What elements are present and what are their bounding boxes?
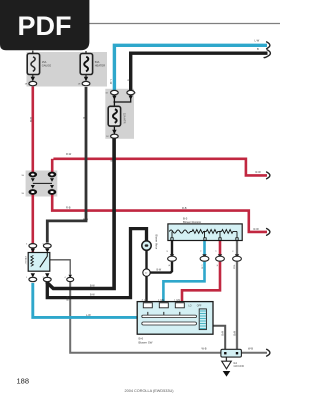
svg-text:R-B: R-B — [66, 205, 71, 209]
svg-text:R-W: R-W — [66, 152, 72, 156]
svg-text:15A: 15A — [42, 60, 47, 64]
svg-text:L-W: L-W — [86, 313, 91, 317]
svg-text:HI: HI — [145, 298, 148, 302]
svg-text:L-W: L-W — [255, 39, 260, 43]
svg-text:Blower SW: Blower SW — [139, 340, 153, 344]
svg-text:HEATER: HEATER — [95, 64, 105, 68]
svg-text:B-W: B-W — [90, 285, 95, 288]
svg-text:LO: LO — [189, 306, 192, 308]
svg-text:W-B: W-B — [248, 347, 253, 351]
svg-text:R-W: R-W — [29, 117, 32, 123]
svg-text:PDF: PDF — [18, 11, 72, 41]
svg-text:GAUGE: GAUGE — [42, 64, 52, 68]
svg-text:ME: ME — [161, 298, 165, 302]
svg-text:B: B — [257, 47, 259, 51]
svg-text:B-W: B-W — [157, 269, 162, 272]
svg-text:R-W: R-W — [256, 170, 262, 174]
svg-text:W-B: W-B — [233, 265, 235, 270]
svg-text:L-W: L-W — [109, 80, 112, 85]
svg-text:2004 COROLLA (EWD533U): 2004 COROLLA (EWD533U) — [125, 389, 175, 393]
svg-text:Blower Resistor: Blower Resistor — [183, 220, 201, 224]
svg-text:50A: 50A — [95, 60, 100, 64]
svg-text:HTR RLY: HTR RLY — [24, 256, 26, 265]
svg-text:W-B: W-B — [221, 331, 224, 336]
svg-text:1J: 1J — [145, 273, 147, 275]
svg-text:W-B: W-B — [66, 296, 69, 301]
svg-text:Blower Motor: Blower Motor — [155, 235, 158, 250]
svg-text:188: 188 — [17, 377, 30, 386]
svg-text:W-B: W-B — [232, 331, 235, 336]
svg-text:GROUND: GROUND — [234, 365, 245, 368]
svg-text:R-B: R-B — [182, 206, 187, 210]
svg-text:15A HTR: 15A HTR — [123, 113, 127, 124]
svg-text:B-5: B-5 — [183, 216, 188, 220]
svg-text:R-W: R-W — [254, 227, 260, 231]
svg-text:B-W: B-W — [90, 294, 95, 297]
svg-text:B-W: B-W — [83, 217, 89, 221]
svg-text:W-B: W-B — [202, 347, 207, 351]
svg-text:M1: M1 — [177, 298, 181, 302]
svg-text:OFF: OFF — [197, 306, 202, 308]
